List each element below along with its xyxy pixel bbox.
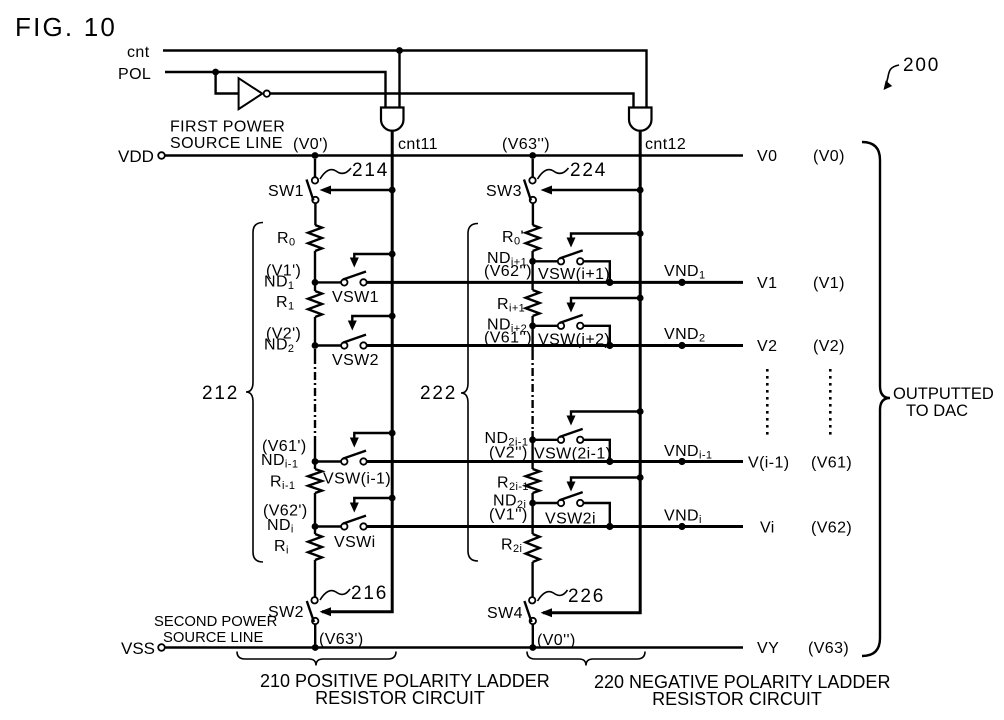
svg-text:(V61): (V61)	[811, 455, 852, 472]
svg-text:FIRST POWER: FIRST POWER	[170, 119, 285, 136]
label cnt11	[398, 136, 438, 153]
caption 220	[594, 672, 890, 709]
svg-text:V(i-1): V(i-1)	[748, 455, 790, 472]
brace 222	[420, 224, 478, 562]
wire V(i-1) rail	[367, 460, 743, 463]
resistor R0'	[502, 225, 540, 251]
svg-text:(V2): (V2)	[813, 338, 845, 355]
arrow head cnt12 to SW4	[541, 608, 553, 617]
wire R(i-1) to NDi	[314, 493, 316, 527]
wire VSW(2i-1) output to V(i-1)	[583, 440, 613, 465]
label (V0'')	[537, 632, 576, 649]
svg-text:SOURCE LINE: SOURCE LINE	[163, 630, 263, 646]
switch VSW2i	[536, 492, 596, 527]
svg-text:V0: V0	[757, 148, 777, 165]
node VND2	[664, 326, 706, 349]
svg-text:(V61''): (V61'')	[484, 330, 532, 347]
svg-text:VNDi: VNDi	[664, 508, 702, 527]
svg-text:FIG. 10: FIG. 10	[15, 12, 117, 42]
terminal VSS	[121, 639, 165, 658]
wire ND1 to R1	[314, 285, 316, 291]
svg-text:SW1: SW1	[268, 183, 304, 200]
svg-text:224: 224	[570, 160, 607, 181]
inverter U1	[239, 78, 270, 109]
switch SW3	[486, 159, 536, 203]
caption 210	[260, 671, 550, 708]
wire ND(i-1) to R(i-1)	[314, 464, 316, 469]
node VND(i-1)	[664, 443, 712, 465]
wire Ri to SW2	[314, 560, 316, 597]
wire inverter output	[270, 94, 634, 108]
label V1 row	[757, 275, 845, 292]
wire SW2 to VSS	[314, 624, 316, 648]
node NDi	[263, 503, 318, 536]
svg-text:Vi: Vi	[760, 520, 775, 537]
junction SW2 on VSS	[312, 644, 319, 651]
svg-text:RESISTOR CIRCUIT: RESISTOR CIRCUIT	[315, 688, 485, 708]
arrow cnt12 to VSW(i+2)	[567, 295, 644, 313]
junction cnt branch	[396, 47, 403, 107]
svg-text:VSWi: VSWi	[334, 534, 376, 551]
net POL label	[118, 66, 151, 83]
node ND(2i-1)	[485, 430, 536, 462]
node ND2i	[489, 493, 536, 524]
svg-text:VSW2i: VSW2i	[545, 511, 596, 528]
wire R0' to ND(i+1)	[531, 251, 533, 261]
wire ladder cross V1	[531, 264, 533, 290]
underbrace 220	[527, 652, 645, 666]
switch VSW2	[318, 335, 379, 369]
switch VSW1	[318, 272, 379, 307]
switch VSW(i+1)	[536, 250, 611, 283]
svg-text:(V62): (V62)	[811, 520, 852, 537]
arrow head cnt11 to SW2	[320, 607, 332, 616]
label V0 row	[757, 148, 845, 165]
svg-text:RESISTOR CIRCUIT: RESISTOR CIRCUIT	[652, 689, 822, 709]
wire R1 to ND2	[314, 317, 316, 346]
wire VSW2i output to Vi	[583, 503, 613, 530]
wire V2 rail	[367, 344, 743, 347]
wire VSS rail	[165, 646, 743, 648]
wire cnt	[163, 51, 647, 108]
terminal VDD	[118, 147, 165, 166]
wire cnt11	[322, 131, 392, 612]
brace 212	[202, 223, 263, 563]
svg-text:TO DAC: TO DAC	[906, 402, 968, 420]
svg-text:VSW(i+2): VSW(i+2)	[538, 332, 610, 349]
resistor Ri	[274, 534, 322, 560]
and-gate G2	[629, 108, 652, 131]
underbrace 210	[237, 652, 396, 666]
label 224	[538, 160, 608, 181]
resistor R(2i-1)	[497, 469, 540, 493]
wire R0 to ND1	[314, 251, 316, 282]
svg-text:cnt: cnt	[127, 44, 150, 61]
svg-text:VY: VY	[757, 640, 779, 657]
switch SW4	[487, 597, 536, 624]
node VNDi	[664, 508, 702, 531]
label FIRST POWER SOURCE LINE	[170, 119, 285, 153]
svg-text:(V1''): (V1'')	[489, 507, 528, 524]
label (V63')	[319, 631, 364, 648]
wire cnt12	[543, 131, 640, 613]
svg-text:(V2''): (V2'')	[489, 445, 528, 462]
switch VSW(2i-1)	[534, 429, 611, 463]
node ND2	[264, 326, 318, 356]
arrow cnt12 to VSW(2i-1)	[567, 408, 644, 425]
switch VSWi	[318, 516, 376, 551]
wire VSW(i+2) output to V2	[583, 326, 613, 349]
svg-text:SOURCE LINE: SOURCE LINE	[170, 135, 283, 152]
junction SW4 on VY	[529, 644, 536, 651]
svg-text:VSW(2i-1): VSW(2i-1)	[534, 446, 611, 463]
node ND(i-1)	[261, 438, 318, 471]
arrow cnt11 to VSW(i-1)	[350, 430, 396, 448]
label cnt12	[645, 136, 686, 153]
svg-text:VSW(i-1): VSW(i-1)	[323, 471, 391, 488]
label 216	[320, 583, 388, 604]
resistor R(i+1)	[497, 290, 540, 316]
wire SW3 to R0'	[532, 203, 534, 225]
arrow cnt11 to VSW1	[350, 251, 396, 268]
svg-text:VSW(i+1): VSW(i+1)	[538, 266, 610, 283]
svg-text:226: 226	[568, 586, 605, 607]
node VND1	[664, 263, 706, 286]
label 226	[538, 586, 606, 607]
svg-text:V1: V1	[757, 275, 777, 292]
switch VSW(i-1)	[318, 451, 391, 488]
switch SW2	[268, 597, 318, 624]
svg-text:(V1): (V1)	[813, 275, 845, 292]
wire R(i+1) to ND(i+2)	[531, 316, 533, 326]
wire R(2i-1) to ND2i	[531, 493, 533, 503]
svg-text:VSS: VSS	[121, 639, 155, 658]
svg-text:200: 200	[903, 55, 940, 76]
node ND(i+1)	[484, 250, 536, 280]
wire ND(2i-1) to R(2i-1)	[531, 443, 533, 469]
wire ND2i to R2i	[531, 506, 533, 534]
svg-text:VSW2: VSW2	[332, 352, 379, 369]
svg-text:(V0'): (V0')	[293, 136, 328, 153]
arrow cnt11 to VSWi	[350, 495, 396, 513]
svg-text:SW4: SW4	[487, 605, 523, 622]
svg-text:(V63): (V63)	[808, 640, 849, 657]
wire ladder continuation dash-dot right	[531, 329, 533, 440]
node ND1	[264, 263, 318, 293]
svg-text:V2: V2	[757, 338, 777, 355]
svg-text:NDi: NDi	[267, 517, 294, 536]
svg-text:212: 212	[202, 383, 239, 404]
svg-text:VDD: VDD	[118, 147, 154, 166]
label Vi row	[760, 520, 852, 537]
wire ladder continuation dash-dot left	[314, 349, 316, 462]
wire POL	[165, 72, 386, 108]
node V0' tap	[293, 136, 328, 159]
wire V1 rail	[367, 281, 743, 284]
svg-text:SECOND POWER: SECOND POWER	[154, 614, 277, 630]
wire NDi to Ri	[314, 529, 316, 534]
arrow cnt12 to VSW2i	[567, 474, 644, 491]
svg-text:(V0): (V0)	[813, 148, 845, 165]
wire Vi rail	[367, 525, 743, 528]
resistor R(i-1)	[270, 469, 322, 493]
arrow cnt12 to SW3	[541, 186, 644, 195]
arrow cnt11 to SW1	[320, 186, 396, 195]
svg-text:216: 216	[351, 583, 388, 604]
arrow cnt11 to VSW2	[348, 313, 396, 331]
node V63'' tap	[502, 136, 550, 159]
svg-text:POL: POL	[118, 66, 151, 83]
svg-text:cnt11: cnt11	[398, 136, 438, 153]
wire V0 rail	[165, 154, 743, 156]
ellipsis dots rows	[766, 369, 832, 435]
resistor R0	[277, 225, 322, 251]
wire SW1 to R0	[314, 203, 316, 225]
svg-text:SW3: SW3	[486, 183, 522, 200]
svg-text:OUTPUTTED: OUTPUTTED	[893, 385, 994, 403]
resistor R2i	[501, 534, 540, 562]
brace outputted to DAC	[862, 142, 994, 656]
svg-text:(V63''): (V63'')	[502, 136, 550, 153]
net cnt label	[127, 44, 150, 61]
svg-text:VSW1: VSW1	[332, 289, 379, 306]
svg-text:R0': R0'	[502, 229, 524, 248]
label V(i-1) row	[748, 455, 852, 472]
svg-text:(V62''): (V62'')	[484, 263, 532, 280]
resistor R1	[276, 291, 322, 317]
label SECOND POWER SOURCE LINE	[154, 614, 277, 646]
svg-text:222: 222	[420, 383, 457, 404]
label V2 row	[757, 338, 845, 355]
node ND(i+2)	[484, 317, 536, 347]
switch VSW(i+2)	[536, 315, 611, 349]
arrow cnt12 to VSW(i+1)	[567, 230, 644, 247]
svg-text:cnt12: cnt12	[645, 136, 686, 153]
wire SW4 to VY	[532, 624, 534, 648]
label 214	[320, 160, 389, 181]
title FIG. 10	[15, 12, 117, 42]
label VY row	[757, 640, 849, 657]
switch SW1	[268, 159, 319, 203]
wire VSW(i+1) output to V1	[583, 261, 613, 286]
svg-text:214: 214	[352, 160, 389, 181]
and-gate G1	[381, 108, 404, 131]
wire R2i to SW4	[531, 562, 533, 597]
svg-text:(V63'): (V63')	[319, 631, 364, 648]
junction POL branch	[212, 69, 238, 94]
label 200	[884, 55, 941, 90]
